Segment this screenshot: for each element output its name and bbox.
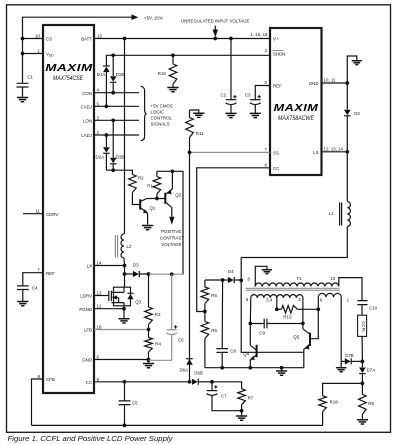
diode D2A — [105, 135, 107, 147]
wire LDRV to gate — [94, 295, 109, 297]
svg-text:D3: D3 — [133, 262, 139, 267]
svg-text:LX: LX — [87, 264, 92, 269]
svg-text:UNREGULATED INPUT VOLTAGE: UNREGULATED INPUT VOLTAGE — [181, 19, 250, 24]
svg-text:R18: R18 — [330, 400, 339, 405]
arrow unregulated input — [214, 26, 216, 31]
ground below C3 — [250, 113, 261, 117]
svg-text:1, 15, 16: 1, 15, 16 — [250, 32, 268, 37]
svg-text:Q2: Q2 — [175, 193, 181, 198]
wire SS — [190, 151, 271, 153]
node GND junction — [147, 358, 151, 362]
svg-text:BATT: BATT — [81, 37, 92, 42]
U2 ground cup — [347, 56, 357, 83]
wire REF pin 3 — [255, 86, 270, 101]
svg-text:D2A: D2A — [96, 154, 105, 159]
node SS junction — [188, 151, 192, 155]
svg-text:C5: C5 — [132, 401, 138, 406]
svg-text:LON: LON — [83, 118, 92, 123]
svg-text:C8: C8 — [230, 348, 236, 353]
svg-text:C2: C2 — [221, 93, 227, 98]
svg-text:MAXIM: MAXIM — [45, 63, 93, 74]
transistor Q5 — [309, 333, 311, 346]
node input arrow junction — [213, 37, 217, 41]
wire contrast rail — [149, 273, 184, 275]
wire to R18 — [323, 383, 363, 395]
wire CS stub — [23, 38, 44, 40]
node R7 bottom junction — [240, 409, 244, 413]
capacitor C5 — [119, 382, 131, 426]
wire R1 top to Q2 emitter — [157, 171, 183, 274]
node LX-L1 junction — [345, 150, 349, 154]
svg-text:D7B: D7B — [345, 353, 354, 358]
resistor R3 — [148, 274, 150, 307]
svg-text:CCFL: CCFL — [361, 321, 366, 333]
node D4 anode junction — [221, 278, 225, 282]
wire LX — [94, 265, 125, 267]
ground above R11 — [190, 110, 199, 113]
wire T1 pin 1 down — [340, 297, 342, 368]
svg-text:Q1: Q1 — [150, 206, 156, 211]
node C9 right junction — [301, 322, 305, 326]
node R16 top junction — [171, 53, 175, 57]
diode D4 — [223, 279, 228, 281]
svg-text:12: 12 — [97, 304, 102, 309]
wire CADJ — [94, 105, 139, 107]
node D1B cathode on CON — [111, 91, 115, 95]
capacitor C4 — [17, 286, 29, 302]
svg-text:Q3: Q3 — [135, 299, 141, 304]
node rail ground junction — [280, 366, 284, 370]
diode D2B — [112, 120, 114, 157]
wire LFB — [94, 329, 149, 331]
svg-text:VDD: VDD — [46, 52, 54, 58]
wire LON — [94, 119, 139, 121]
capacitor C1 — [17, 83, 29, 97]
node D3 cathode junction — [147, 272, 151, 276]
node R5-R6 junction — [203, 310, 207, 314]
node D1B top junction — [111, 53, 115, 57]
svg-text:CS: CS — [46, 37, 52, 42]
wire royer emitter rail — [205, 367, 304, 369]
node C2 junction — [229, 37, 233, 41]
svg-text:Figure 1. CCFL and Positive LC: Figure 1. CCFL and Positive LCD Power Su… — [8, 434, 174, 443]
inductor L2 — [121, 234, 124, 258]
ground below pin1 — [336, 368, 347, 372]
resistor R11 — [189, 110, 191, 118]
svg-text:MAX754CSE: MAX754CSE — [53, 75, 84, 82]
wire T1 pin 5 to Q4 collector — [249, 298, 252, 345]
svg-text:Q5: Q5 — [293, 334, 299, 339]
resistor R8 — [359, 394, 367, 414]
wire R5 top to D4 — [205, 279, 223, 281]
wire LADJ — [94, 134, 139, 136]
node C5 bottom junction — [123, 424, 127, 428]
svg-text:CONTROL: CONTROL — [151, 116, 173, 121]
resistor R10 — [277, 308, 282, 310]
ground below C4 — [17, 302, 28, 306]
svg-text:R11: R11 — [196, 131, 204, 136]
T1 core — [246, 288, 340, 290]
T1 primary winding 3,4 to 2 — [277, 295, 303, 298]
wire Q1 collector to Q2 base — [147, 198, 165, 200]
transistor Q4 — [256, 345, 258, 357]
svg-text:SIGNALS: SIGNALS — [151, 122, 170, 127]
svg-text:R8: R8 — [368, 401, 374, 406]
node Q4 emitter junction — [248, 366, 252, 370]
wire bottom ground rail — [32, 424, 323, 426]
svg-text:SHDN: SHDN — [273, 52, 285, 57]
resistor R2 — [129, 175, 137, 193]
svg-text:CDRV: CDRV — [46, 212, 58, 217]
svg-text:CFB: CFB — [46, 377, 55, 382]
ground below R4 — [143, 364, 154, 368]
svg-text:LOGIC: LOGIC — [151, 110, 165, 115]
resistor R18 — [319, 396, 327, 412]
svg-text:R4: R4 — [155, 341, 161, 346]
wire L1 supply down to Q4 base — [241, 258, 304, 353]
diode D1A — [103, 67, 110, 73]
svg-text:SS: SS — [273, 150, 279, 155]
svg-text:C6: C6 — [178, 338, 184, 343]
svg-text:D6A: D6A — [180, 368, 189, 373]
wire +5V logic rail to SHDN — [106, 55, 270, 66]
diode D6B — [192, 379, 198, 385]
svg-text:REF: REF — [46, 271, 55, 276]
svg-text:D2B: D2B — [116, 154, 125, 159]
node R1 bottom junction — [155, 197, 159, 201]
svg-text:R16: R16 — [158, 71, 167, 76]
svg-text:L1: L1 — [329, 211, 334, 216]
node PGND junction — [122, 307, 126, 311]
T1 feedback winding 6 to 1 — [318, 293, 341, 297]
wire L2 to LX node — [123, 258, 126, 274]
svg-text:T1: T1 — [297, 276, 303, 281]
svg-text:D7A: D7A — [367, 368, 376, 373]
diode D2 — [346, 83, 348, 110]
svg-text:MAXIM: MAXIM — [274, 103, 319, 114]
ground below C1 — [17, 98, 28, 102]
svg-text:R5: R5 — [211, 293, 217, 298]
T1 pin 8 ground cup — [255, 266, 267, 286]
node R10 left junction — [275, 307, 279, 311]
capacitor C8 — [216, 280, 228, 368]
ground below R16 — [167, 88, 178, 92]
node D3 anode junction — [123, 272, 127, 276]
svg-text:Q4: Q4 — [243, 351, 249, 356]
brace logic signals — [141, 86, 147, 140]
capacitor C9 — [250, 319, 303, 329]
diode D6A — [189, 359, 191, 382]
svg-text:D2: D2 — [354, 111, 360, 116]
svg-text:C7: C7 — [221, 393, 227, 398]
svg-text:D1B: D1B — [116, 72, 125, 77]
wire +5V output rail — [23, 17, 133, 83]
svg-text:V+: V+ — [273, 37, 279, 42]
svg-text:REF: REF — [273, 84, 282, 89]
node CS-VDD rail junction — [21, 37, 25, 41]
node D7B cathode junction — [361, 360, 365, 364]
svg-text:R10: R10 — [283, 314, 292, 319]
wire CON — [94, 92, 139, 94]
svg-text:R1: R1 — [147, 184, 153, 189]
node R18 branch junction — [361, 382, 365, 386]
svg-text:GND: GND — [309, 81, 319, 86]
node R10 right junction — [316, 307, 320, 311]
svg-text:LDRV: LDRV — [80, 294, 92, 299]
wire BATT to V+ — [94, 38, 270, 40]
svg-text:L2: L2 — [127, 244, 132, 249]
wire T1 pin 6 to Q5 base — [311, 297, 318, 339]
wire REF stub — [23, 273, 43, 286]
node R4 bottom junction — [147, 358, 151, 362]
resistor R7 — [238, 389, 246, 405]
svg-text:12, 13, 14: 12, 13, 14 — [324, 146, 344, 151]
node GND-D2 junction — [345, 81, 349, 85]
capacitor C3 — [250, 99, 261, 101]
node LFB junction — [147, 328, 151, 332]
svg-text:C1: C1 — [27, 75, 33, 80]
wire VDD stub — [23, 53, 44, 55]
svg-text:CONTRAST: CONTRAST — [160, 236, 184, 241]
ground below Q1 — [142, 226, 153, 230]
svg-text:D4: D4 — [228, 269, 234, 274]
node contrast C6 branch — [170, 272, 174, 276]
wire D6B node to R7 — [212, 382, 242, 389]
transistor Q2 — [164, 193, 166, 204]
node C8 bottom junction — [220, 366, 224, 370]
svg-text:PGND: PGND — [79, 307, 92, 312]
svg-text:D1A: D1A — [97, 72, 106, 77]
wire drain from D3 node — [124, 274, 126, 287]
svg-text:MAX758ACWE: MAX758ACWE — [278, 115, 315, 122]
svg-text:POSITIVE: POSITIVE — [161, 229, 181, 234]
diode D3 — [125, 273, 133, 275]
capacitor C7 — [211, 382, 213, 391]
ground below royer rail — [281, 368, 283, 371]
wire CC(U2) pin 8 — [197, 168, 270, 312]
ground below R7 — [236, 416, 247, 420]
wire GND pin — [94, 359, 149, 361]
svg-text:CC: CC — [86, 380, 92, 385]
resistor R5 — [204, 280, 206, 287]
wire T1 pin 2 to Q5 collector — [302, 298, 304, 329]
svg-text:C10: C10 — [369, 306, 378, 311]
svg-text:R3: R3 — [155, 312, 161, 317]
svg-text:CC: CC — [273, 166, 279, 171]
T1 pin 13 wire to C10 — [339, 278, 362, 301]
resistor R4 — [148, 330, 150, 338]
svg-text:+5V CMOS: +5V CMOS — [151, 104, 173, 109]
node C9 left junction — [248, 322, 252, 326]
node D2A top on LADJ — [105, 133, 109, 137]
svg-text:14: 14 — [97, 261, 102, 266]
ground below R8 — [357, 420, 368, 424]
wire T1 pin 3,4 to R10 — [276, 298, 278, 309]
diode D7A — [361, 361, 363, 367]
svg-text:D6B: D6B — [194, 371, 203, 376]
wire PGND — [94, 308, 124, 310]
svg-text:R7: R7 — [248, 396, 254, 401]
node C5 junction — [123, 380, 127, 384]
svg-text:LADJ: LADJ — [81, 133, 92, 138]
diode D7B — [341, 360, 345, 362]
svg-text:C3: C3 — [245, 93, 251, 98]
arrow +5V output — [132, 14, 139, 20]
IC U2 MAX758ACWE body — [270, 28, 322, 175]
transformer T1 top winding — [255, 283, 338, 286]
wire GND(U2) pin — [322, 82, 348, 84]
svg-text:13: 13 — [330, 276, 335, 281]
resistor R6 — [204, 312, 206, 322]
IC U1 MAX754CSE body — [43, 25, 94, 393]
wire R2 to Q1 base — [132, 193, 140, 205]
ground below Q3 — [118, 319, 129, 323]
svg-text:3,4: 3,4 — [266, 298, 273, 303]
capacitor C10 — [357, 301, 367, 316]
svg-text:LX: LX — [313, 150, 318, 155]
capacitor C6 — [171, 274, 173, 330]
svg-text:LFB: LFB — [84, 328, 92, 333]
transistor Q3 (MOSFET in box) — [114, 287, 131, 306]
svg-text:C9: C9 — [259, 330, 265, 335]
T1 primary winding 5 to 3,4 — [251, 295, 277, 298]
svg-text:C4: C4 — [32, 285, 38, 290]
CCFL lamp — [358, 315, 367, 336]
svg-text:+5V, ±5%: +5V, ±5% — [144, 16, 163, 21]
node Q2 emitter top junction — [171, 169, 175, 173]
inductor L1 — [346, 152, 348, 202]
node C7 junction — [210, 380, 214, 384]
wire CFB to bottom rail — [32, 379, 44, 425]
svg-text:10, 11: 10, 11 — [324, 78, 336, 83]
wire LX(U2) pin — [322, 151, 348, 153]
ground below C2 — [225, 113, 236, 117]
wire CDRV stub — [23, 213, 43, 215]
node BATT-L2 junction — [123, 37, 127, 41]
node D1A anode on CADJ — [105, 104, 109, 108]
svg-text:GND: GND — [82, 358, 92, 363]
svg-text:CADJ: CADJ — [81, 104, 92, 109]
node LX junction — [123, 264, 127, 268]
wire source to ground — [123, 306, 125, 319]
resistor R16 — [172, 55, 174, 64]
diode D1B — [112, 55, 114, 76]
svg-text:15: 15 — [97, 34, 102, 39]
svg-text:VOLTAGE: VOLTAGE — [161, 242, 181, 247]
svg-text:10: 10 — [35, 34, 40, 39]
node D2B bottom junction — [111, 168, 115, 172]
node D2B top on LON — [111, 118, 115, 122]
node VDD junction — [21, 52, 25, 56]
resistor R1 — [156, 171, 158, 176]
wire D2 bottoms to R2 — [106, 170, 132, 174]
wire BATT rail down to L2 — [124, 39, 126, 235]
wire CC pin 9 — [94, 381, 190, 383]
arrow positive contrast output — [169, 217, 174, 225]
svg-text:CON: CON — [82, 91, 92, 96]
wire R11 line down to D6A — [189, 152, 191, 358]
transistor Q1 — [139, 199, 141, 209]
svg-text:R2: R2 — [138, 176, 144, 181]
node D6A bottom junction — [188, 380, 192, 384]
svg-text:R6: R6 — [211, 328, 217, 333]
svg-text:13: 13 — [97, 291, 102, 296]
node D4 cathode junction — [239, 279, 243, 283]
svg-text:16: 16 — [97, 325, 102, 330]
svg-text:11: 11 — [35, 209, 40, 214]
capacitor C2 — [230, 39, 232, 100]
